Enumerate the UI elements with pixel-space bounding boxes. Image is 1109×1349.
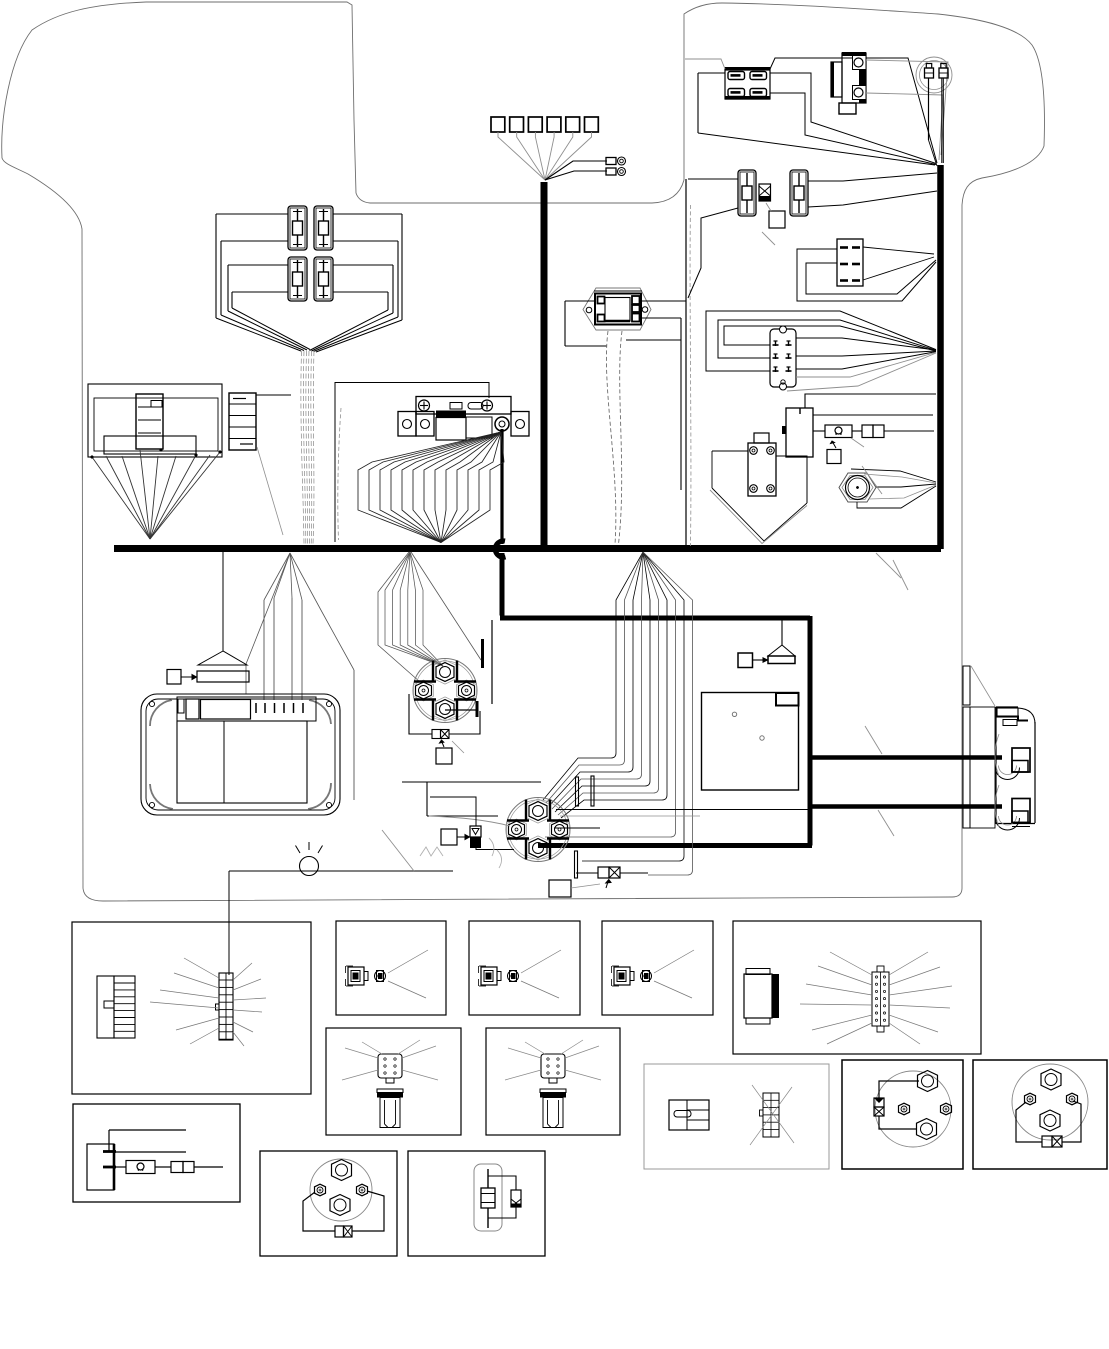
- B6 connector + plug boot: [378, 1054, 402, 1078]
- main fan from trunk junction to lower solenoid: [543, 552, 643, 800]
- B3 bullet connectors: [481, 967, 497, 985]
- detail box B6: [326, 1028, 461, 1135]
- S2 gray arcs: [489, 838, 494, 856]
- leader 6: [876, 553, 901, 578]
- S2 wires right: [554, 827, 600, 829]
- B10 fuse holder: [474, 1164, 502, 1231]
- terminal strip: [229, 393, 256, 450]
- instrument harness connector strip (6 bullet sockets): [491, 117, 505, 132]
- oil sensor wires: [851, 469, 936, 482]
- coil arrow + square: [832, 441, 836, 448]
- CD ignition switch box: [583, 288, 651, 330]
- B10 wires + fuse: [488, 1176, 516, 1190]
- S2 fuse chain left: [441, 829, 457, 845]
- leader 1: [862, 466, 882, 494]
- light wire: [229, 870, 453, 872]
- horn / coil symbol: [825, 425, 852, 438]
- C1 wires left: [698, 72, 725, 74]
- fan from trunk to battery: [246, 553, 290, 664]
- main solenoid S2: [506, 798, 570, 862]
- fuse holder F5: [738, 170, 756, 216]
- oil tank box body: [702, 693, 799, 791]
- trim harness connector: [837, 239, 863, 286]
- main engine harness connector C1 (4-socket): [725, 68, 770, 99]
- start relay block: [786, 408, 813, 457]
- S1 fuse arrow + square: [442, 741, 445, 747]
- detail box B12: [842, 1060, 963, 1169]
- fuse holder F2: [314, 206, 333, 250]
- detail box B9: [260, 1151, 397, 1256]
- relay module R1: [842, 53, 866, 103]
- leader 5: [382, 830, 414, 871]
- starter circuit wire loop: [335, 383, 489, 543]
- B13 solenoid: [1012, 1064, 1088, 1140]
- B11 switch module: [669, 1100, 709, 1130]
- service loop at trunk junction: [495, 541, 505, 557]
- C1 wires right: [770, 58, 937, 163]
- boat hull / transom outline: [2, 2, 1045, 901]
- B2 bullet connectors: [348, 967, 364, 985]
- ring terminal wire 1: [545, 161, 607, 180]
- battery feed wires: [263, 600, 265, 700]
- S1 bracket bars: [481, 639, 484, 668]
- tilt switch + lever: [222, 552, 224, 651]
- fan from trunk to tilt solenoid: [385, 552, 443, 666]
- leader 3: [865, 726, 882, 754]
- terminal strip wires: [256, 394, 291, 396]
- leader near coil: [851, 438, 864, 447]
- engine feed cable upper: [808, 755, 1002, 760]
- fuse holder F6: [790, 170, 808, 216]
- detail box B1: [72, 922, 311, 1094]
- detail box B13: [973, 1060, 1107, 1169]
- B12 solenoid: [875, 1071, 951, 1147]
- switch box wires: [565, 300, 595, 302]
- tilt solenoid S1: [413, 659, 477, 723]
- detail box B10: [408, 1151, 545, 1256]
- B8 relay chain: [87, 1144, 114, 1190]
- engine plug connector: [963, 666, 970, 705]
- S2 terminal bars: [576, 777, 579, 806]
- B4 bullet connectors: [614, 967, 630, 985]
- B1 pin strip: [219, 973, 233, 1040]
- detail box B2: [336, 921, 446, 1015]
- fuse holder F1: [288, 206, 307, 250]
- trim pump block: [754, 433, 769, 443]
- B1 pin rays: [184, 958, 219, 978]
- trim pump wires: [712, 450, 748, 452]
- fuse group wiring funnel: [216, 213, 288, 215]
- detail box B11: [644, 1064, 829, 1169]
- connector X1 square: [769, 211, 785, 228]
- starter motor / solenoid assembly: [416, 397, 511, 415]
- F5 F6 wires: [688, 178, 738, 180]
- wire bundle from fuse group to trunk: [301, 351, 304, 544]
- battery cable to solenoid: [538, 843, 812, 848]
- S2 left wiring: [402, 781, 541, 783]
- B12 wires + fuse: [879, 1081, 919, 1098]
- regulator / battery charger cluster: [88, 384, 222, 457]
- fan-out wires to trunk A top: [498, 132, 545, 180]
- B13 wires + fuse: [1016, 1102, 1042, 1142]
- plug wires to trunk B: [928, 78, 930, 140]
- leader 2: [893, 560, 908, 590]
- trim connector wires: [863, 247, 934, 254]
- B5 pin rays: [830, 952, 872, 975]
- engine harness verticals: [685, 179, 687, 546]
- main harness trunk A (vertical, helm to junction): [541, 182, 548, 549]
- main horizontal harness trunk: [114, 545, 941, 552]
- starter cable: [500, 429, 503, 544]
- oil tank sender box: [781, 619, 783, 645]
- inline connector X1: [759, 184, 771, 201]
- relay block wires: [805, 394, 936, 408]
- spark plug lead terminals P1: [916, 57, 952, 93]
- S1 wires: [445, 709, 477, 711]
- battery: [141, 694, 340, 815]
- detail box B8: [73, 1104, 240, 1202]
- CDI connector wires to trunk: [724, 326, 936, 351]
- detail box B5: [733, 921, 981, 1054]
- B5 pin strip: [872, 972, 889, 1026]
- B1 comb connector: [97, 976, 114, 1038]
- switch box bundle to trunk: [606, 331, 615, 544]
- S2 fuse chain bottom: [598, 867, 609, 878]
- leader 4: [878, 810, 894, 836]
- cluster fan-out to trunk: [92, 457, 150, 539]
- B9 wires + fuse: [303, 1192, 335, 1231]
- B7 connector + plug boot: [541, 1054, 565, 1078]
- detail box B3: [469, 921, 580, 1015]
- B5 pump module: [744, 974, 772, 1018]
- fuse holder F4: [314, 257, 333, 301]
- R1 wires (gray): [866, 60, 948, 155]
- B9 solenoid: [310, 1159, 372, 1221]
- engine feed cable lower: [810, 804, 1002, 809]
- battery cable trunk C down-right: [500, 553, 505, 616]
- courtesy light: [300, 857, 319, 876]
- starter cable bundle (lens fan): [358, 432, 501, 543]
- B11 connector + rays: [763, 1093, 779, 1137]
- coil chain: [813, 430, 825, 432]
- fuse holder F3: [288, 257, 307, 301]
- branch wire from trunk C: [491, 620, 493, 704]
- oil level sensor: [839, 473, 876, 502]
- detail box B4: [602, 921, 713, 1015]
- main harness trunk B (vertical, engine side): [937, 165, 944, 549]
- CDI connector: [770, 329, 796, 387]
- ring terminal wire 2: [545, 171, 607, 180]
- detail box B7: [486, 1028, 620, 1135]
